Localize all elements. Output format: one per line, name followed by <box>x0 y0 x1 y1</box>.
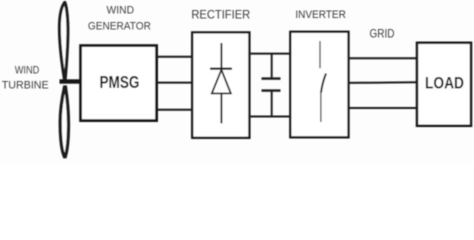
svg-text:WIND: WIND <box>15 65 40 77</box>
inverter box <box>290 32 348 138</box>
svg-text:RECTIFIER: RECTIFIER <box>191 8 250 22</box>
svg-text:GRID: GRID <box>370 26 395 40</box>
svg-text:TURBINE: TURBINE <box>2 80 49 92</box>
wind turbine bottom blade <box>60 87 68 157</box>
wire grid phase A (inverter to load) <box>349 57 418 59</box>
wire phase B (PMSG to rectifier) <box>157 82 193 84</box>
hub and shaft <box>60 79 83 83</box>
wire grid phase B (inverter to load) <box>349 81 418 84</box>
capacitor C1 top lead <box>271 54 273 78</box>
svg-text:LOAD: LOAD <box>425 74 464 92</box>
switch S1 blade <box>321 74 326 93</box>
wire DC link top <box>249 53 290 55</box>
wire grid phase C (inverter to load) <box>349 107 418 109</box>
diode D1 cathode bar <box>210 67 232 69</box>
diode D1 top lead <box>220 43 222 69</box>
wind turbine top blade <box>59 3 68 79</box>
svg-text:INVERTER: INVERTER <box>295 9 346 21</box>
capacitor C1 bottom plate <box>262 89 281 91</box>
svg-text:PMSG: PMSG <box>100 72 140 92</box>
capacitor C1 bottom lead <box>271 91 273 116</box>
diode D1 triangle <box>212 70 231 94</box>
rectifier box <box>192 32 249 137</box>
generator box PMSG <box>81 46 157 121</box>
wire phase C (PMSG to rectifier) <box>157 109 193 111</box>
wire phase A (PMSG to rectifier) <box>157 56 193 58</box>
capacitor C1 top plate <box>262 77 281 79</box>
load box <box>417 43 471 126</box>
svg-text:GENERATOR: GENERATOR <box>88 21 151 33</box>
svg-text:WIND: WIND <box>107 5 135 17</box>
switch S1 top lead <box>319 41 321 68</box>
diode D1 bottom lead <box>220 94 222 124</box>
wire DC link bottom <box>249 116 290 118</box>
switch S1 bottom lead <box>320 93 322 123</box>
